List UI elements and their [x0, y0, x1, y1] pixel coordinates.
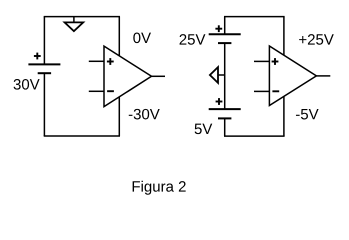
ground GND between batteries	[210, 67, 225, 83]
wire bottom rail left circuit	[44, 135, 120, 137]
label -30V	[129, 109, 160, 120]
op-amp U1	[104, 46, 152, 107]
label 5V	[195, 124, 213, 134]
wire output stub U2	[316, 75, 330, 77]
wire bottom rail right circuit	[224, 135, 285, 137]
wire left rail lower (battery V1 - to bottom rail)	[43, 73, 45, 136]
wire non-inverting input stub U2	[254, 60, 269, 62]
wire V- supply rise from bottom rail to op-amp U2	[283, 97, 285, 137]
battery V3 5V	[209, 98, 241, 118]
battery V1 30V	[28, 53, 60, 74]
wire V+ supply drop to op-amp U1	[118, 17, 120, 56]
label -5V	[296, 109, 319, 119]
wire top rail left circuit	[44, 16, 120, 18]
wire battery stack top (top rail to battery V2 +)	[224, 17, 226, 35]
op-amp U2	[269, 46, 316, 106]
battery V2 25V	[209, 25, 241, 43]
wire V- supply rise from bottom rail to op-amp U1	[118, 97, 120, 136]
wire top rail right circuit	[224, 16, 285, 18]
label +25V	[299, 34, 334, 45]
ground GND top of left circuit	[65, 17, 84, 32]
label 30V	[14, 79, 40, 90]
wire battery stack bottom (battery V3 - to bottom rail)	[224, 118, 226, 136]
wire inverting input stub U1	[89, 90, 104, 92]
wire left rail upper (top rail to battery V1 +)	[43, 17, 45, 65]
label 25V	[180, 34, 206, 45]
wire inverting input stub U2	[254, 90, 269, 92]
wire output stub U1	[152, 75, 166, 77]
caption Figura 2	[133, 181, 186, 195]
wire between batteries	[224, 43, 226, 109]
wire V+ supply drop to op-amp U2	[283, 17, 285, 56]
wire non-inverting input stub U1	[89, 60, 104, 62]
label 0V	[133, 33, 151, 44]
